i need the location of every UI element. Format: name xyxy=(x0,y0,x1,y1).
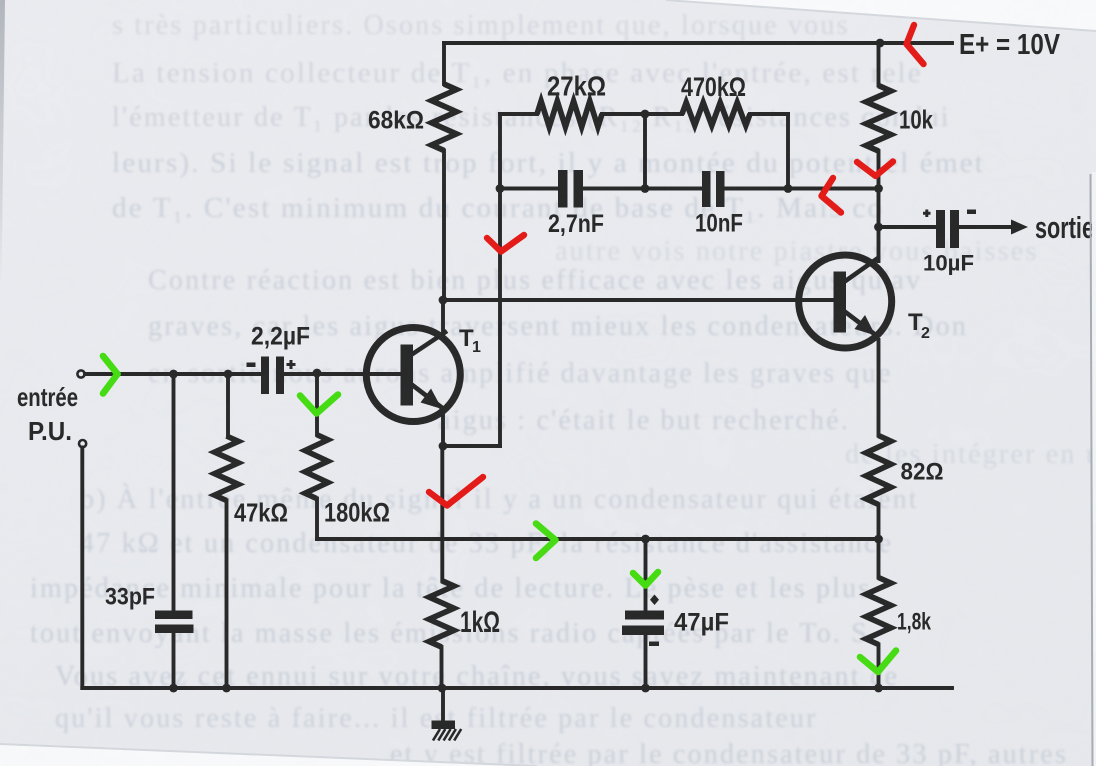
wire ground rail xyxy=(82,686,952,690)
wire T1 emitter stub xyxy=(441,410,445,446)
wire 10k column top xyxy=(877,43,881,86)
transistor T2 xyxy=(799,255,892,348)
wire feedback row xyxy=(317,537,879,541)
resistor R 470k xyxy=(682,103,750,126)
wire 180k bottom stub xyxy=(315,499,319,540)
resistor R 1.8k xyxy=(866,578,891,645)
polarity marks 10uF xyxy=(923,210,931,218)
red check left of T2 collector node xyxy=(822,178,842,213)
green check at input xyxy=(103,356,118,394)
wire 47k bottom xyxy=(225,501,229,689)
wire 68k bottom to collector rail xyxy=(442,151,446,301)
wire input to 2.2uF xyxy=(85,372,261,376)
red check above 1k xyxy=(429,477,483,506)
wire 1k top stub xyxy=(440,446,444,581)
page left edge shadow xyxy=(0,0,5,290)
node supply junction xyxy=(876,39,885,48)
wire lower terminal down xyxy=(80,448,84,689)
wire junction drop 27k/470k xyxy=(643,114,647,189)
transistor T1 xyxy=(366,328,460,422)
node 82R-1.8k junction xyxy=(874,535,883,544)
wire top supply rail xyxy=(444,41,952,45)
red check mid feedback column xyxy=(487,235,524,252)
node sortie tap xyxy=(874,223,883,232)
wire 27k right stub xyxy=(602,112,645,116)
node 10k bottom xyxy=(874,184,883,193)
wire cap row right xyxy=(725,187,879,191)
green check above 1.8k bottom xyxy=(860,651,896,673)
node rail-1.8k xyxy=(874,684,883,693)
page right edge shadow line xyxy=(1092,172,1096,766)
node rail-47k xyxy=(222,684,231,693)
green check on feedback row xyxy=(536,524,556,559)
wire 2.2uF to T1 base xyxy=(284,372,401,376)
red check near E+ xyxy=(907,25,924,64)
node 47uF top xyxy=(641,535,650,544)
wire cap row left xyxy=(500,187,558,191)
ground hatching xyxy=(433,729,440,741)
wire 68k column top xyxy=(442,43,446,84)
page bottom-left white wedge xyxy=(0,744,537,766)
wire 10k bottom to T2 collector xyxy=(877,151,881,261)
resistor R 27k xyxy=(537,101,602,127)
capacitor C 2.2uF plates xyxy=(261,357,269,395)
wire collector rail to T2 base xyxy=(443,298,834,302)
polarity marks 2.2uF xyxy=(247,363,256,368)
wire 1k bottom xyxy=(440,647,444,688)
green check above 47uF xyxy=(633,572,658,586)
arrowhead sortie xyxy=(1011,220,1028,235)
wire sortie arrow line xyxy=(959,225,1014,229)
resistor R 1k xyxy=(429,581,454,648)
wire 470k drop xyxy=(786,114,790,189)
ground bar xyxy=(432,721,456,730)
node 47k top xyxy=(224,370,233,379)
terminal input lower xyxy=(79,440,86,447)
wire 47uF top stub xyxy=(644,539,648,611)
wire 180k top stub xyxy=(315,373,319,435)
resistor R 10k xyxy=(866,86,891,152)
wire T1 collector stub xyxy=(441,300,445,336)
green check below 180k top xyxy=(300,395,338,414)
capacitor C 2.7nF plates xyxy=(558,170,568,208)
node T1 collector xyxy=(439,296,448,305)
resistor R 82 xyxy=(866,436,891,505)
node rail-47uF xyxy=(641,684,650,693)
node rail-33pF xyxy=(169,684,178,693)
capacitor C 33pF plates xyxy=(155,611,193,620)
page top-right white wedge xyxy=(666,0,1096,31)
wire 33pF bottom xyxy=(172,633,176,688)
red check below 10k xyxy=(857,162,893,177)
wire 470k right stub xyxy=(750,112,788,116)
resistor R 68k xyxy=(432,84,457,151)
capacitor C 10nF plates xyxy=(702,171,711,207)
wire 33pF column xyxy=(172,374,176,611)
node 33pF top xyxy=(169,370,178,379)
capacitor C 47uF plates xyxy=(625,611,664,620)
node rail-ground xyxy=(438,684,447,693)
wire 470k left stub xyxy=(645,112,682,116)
ground stub xyxy=(441,688,445,722)
terminal input upper xyxy=(77,370,84,377)
wire 82 to 1.8k xyxy=(877,505,881,578)
wire T2 emitter down xyxy=(877,340,881,436)
node 2.7nF-10nF junction xyxy=(641,184,650,193)
resistor R 180k xyxy=(305,435,328,499)
wire cap row middle xyxy=(583,187,702,191)
wire feedback column vertical xyxy=(498,114,502,446)
node 180k top xyxy=(313,369,322,378)
node T1 emitter xyxy=(439,442,448,451)
wire emitter to feedback column xyxy=(443,444,500,448)
wire 47k top stub xyxy=(226,374,230,436)
node 27k-470k junction xyxy=(641,110,650,119)
wire 27k left stub xyxy=(500,112,537,116)
node 2.7nF left xyxy=(496,184,505,193)
node 470k drop xyxy=(784,184,793,193)
capacitor C 10uF plates xyxy=(936,210,945,248)
polarity marks 47uF xyxy=(650,595,659,606)
wire 1.8k bottom xyxy=(877,645,881,689)
resistor R 47k xyxy=(215,436,239,501)
wire 47uF bottom xyxy=(644,635,648,688)
wire sortie branch xyxy=(879,225,937,229)
